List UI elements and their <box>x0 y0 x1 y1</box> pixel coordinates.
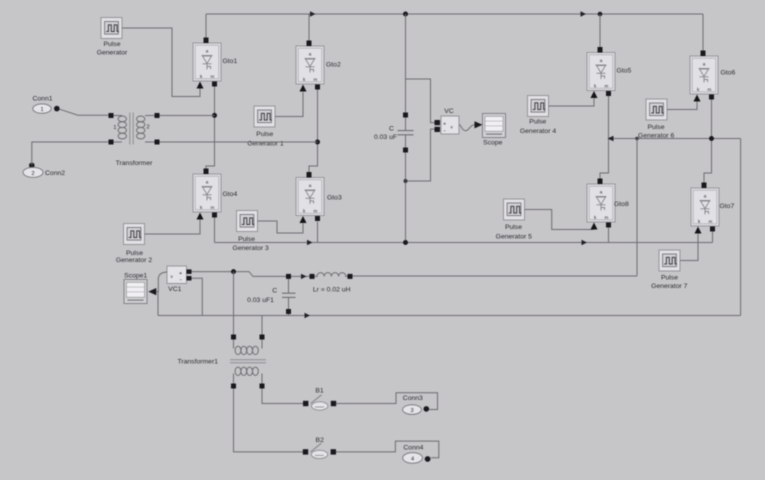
wire: right leg2 midpoint Gto6 cathode to Gto7 anode <box>704 100 712 183</box>
wire: Pulse Generator 5 to Gto8 gate <box>525 210 595 230</box>
wire: injection node down to Transformer1 primary left <box>233 272 235 335</box>
arrow into Scope1 input (flipped) <box>148 288 156 295</box>
svg-text:C: C <box>389 126 394 133</box>
junction dot: filter branch tap <box>635 137 639 141</box>
svg-text:Generator 1: Generator 1 <box>247 140 283 147</box>
pulse generator "Pulse Generator 1" <box>254 106 275 127</box>
voltage measurement VC <box>435 116 460 135</box>
wire: DC- rail up to Gto7 cathode <box>712 232 714 243</box>
svg-text:Generator 4: Generator 4 <box>520 128 556 135</box>
wire: right drop from y138 to bottom return line <box>740 139 742 316</box>
port Conn2 <box>23 163 65 178</box>
svg-text:VC: VC <box>444 108 454 115</box>
svg-text:-: - <box>180 278 182 284</box>
wire: VC output s-curve to Scope <box>459 125 475 131</box>
GTO Gto5 <box>587 47 615 98</box>
pulse generator "Pulse Generator" <box>101 18 122 39</box>
transformer Transformer <box>109 113 160 145</box>
GTO Gto4 <box>193 169 221 220</box>
arrow into Scope input <box>475 121 483 128</box>
wire: C1 top to inductor Lr <box>291 275 310 277</box>
wire: Gto8 cathode to DC- rail <box>608 228 610 243</box>
breaker B2 <box>303 443 336 458</box>
pulse generator "Pulse Generator 6" <box>646 99 667 120</box>
inductor Lr <box>310 273 353 279</box>
wire: transformer secondary bottom to left bridge leg2 <box>160 141 318 143</box>
pulse generator "Pulse Generator 4" <box>528 96 549 117</box>
GTO Gto1 <box>193 38 221 89</box>
wire: Pulse Generator 2 to Gto4 gate <box>145 220 201 234</box>
svg-text:Gto8: Gto8 <box>614 201 629 208</box>
wire: left leg2 midpoint Gto2 cathode to Gto3 anode <box>309 90 318 173</box>
breaker B1 <box>303 395 336 410</box>
junction arrow on return line right of C1 <box>305 313 311 318</box>
wire: Pulse Generator to Gto1 gate <box>122 28 200 97</box>
pulse generator "Pulse Generator 7" <box>659 250 680 271</box>
wire: Gto3 cathode to DC- rail <box>317 222 319 243</box>
junction arrow on DC- rail left <box>307 240 313 245</box>
junction dot: Transformer1 tap on VC1+ line <box>231 269 236 274</box>
pulse generator "Pulse Generator 5" <box>504 199 525 220</box>
svg-text:Conn4: Conn4 <box>403 445 423 452</box>
wire: capacitor C top tap to VC + input <box>406 79 435 123</box>
wire: Pulse Generator 3 to Gto3 gate <box>258 221 304 233</box>
voltage measurement VC1 (flipped) <box>167 266 192 284</box>
port Conn1 <box>32 96 59 114</box>
svg-text:2: 2 <box>31 171 34 177</box>
junction dot: transformer secondary bottom on leg2 <box>315 140 320 145</box>
GTO Gto7 <box>691 183 719 234</box>
junction dot on capacitor C bottom tap <box>404 179 408 183</box>
wire: VC1 output curve down to Scope1 <box>156 272 167 292</box>
junction arrow before Lr <box>301 274 307 279</box>
wire: Conn1 to transformer primary top <box>60 109 109 115</box>
svg-text:Scope: Scope <box>483 140 502 147</box>
wire: top DC+ rail <box>206 13 703 15</box>
svg-text:Generator: Generator <box>97 50 128 57</box>
port Conn3 <box>403 395 430 415</box>
junction dot: capacitor C tap on top rail <box>403 12 408 17</box>
scope Scope1 <box>124 280 147 304</box>
wire: top rail to capacitor C <box>405 14 407 113</box>
wire: transformer secondary top to left bridge leg1 <box>160 115 215 117</box>
wire: capacitor C bottom tap to VC - input <box>406 129 435 181</box>
svg-text:Conn3: Conn3 <box>403 395 423 402</box>
wire: Pulse Generator 1 to Gto2 gate <box>275 92 303 117</box>
wire: capacitor C bottom to DC- rail <box>405 153 407 243</box>
svg-text:Gto5: Gto5 <box>617 68 632 75</box>
svg-text:VC1: VC1 <box>168 286 181 293</box>
svg-text:C: C <box>272 288 277 295</box>
wire: DC- rail <box>215 242 713 244</box>
wire: Transformer1 secondary right down to breaker B1 <box>262 389 303 404</box>
svg-text:+: + <box>443 121 446 127</box>
svg-text:Transformer1: Transformer1 <box>177 358 218 365</box>
wire: rail down to Gto2 anode <box>308 14 310 41</box>
svg-text:Gto1: Gto1 <box>223 58 238 65</box>
junction dot where leg2 wire crosses y138 <box>709 136 714 141</box>
wire: B1 to Conn3 wrap-around <box>336 393 437 410</box>
wire: B2 to Conn4 wrap-around <box>336 441 439 458</box>
svg-text:Pulse: Pulse <box>661 274 678 281</box>
svg-text:0.03 uF: 0.03 uF <box>374 134 397 141</box>
wire: Lr to right bridge branch <box>353 275 638 277</box>
junction dot: capacitor C on DC- rail <box>403 240 408 245</box>
svg-text:Pulse: Pulse <box>647 124 664 131</box>
junction arrow at Gto5 cathode node <box>608 136 614 141</box>
svg-text:2: 2 <box>147 124 150 130</box>
scope Scope <box>483 114 506 138</box>
svg-text:Gto2: Gto2 <box>326 62 341 69</box>
transformer Transformer1 <box>230 335 266 389</box>
wire: rail corner down to Gto6 anode <box>702 14 704 51</box>
wire: Pulse Generator 6 to Gto6 gate <box>667 102 697 110</box>
junction arrow on top rail <box>310 11 316 16</box>
svg-text:Lr = 0.02 uH: Lr = 0.02 uH <box>313 286 351 293</box>
svg-text:Pulse: Pulse <box>256 131 273 138</box>
wire: C1 bottom stub to return line <box>288 314 290 316</box>
svg-text:B1: B1 <box>315 387 324 394</box>
wire: return line down to Transformer1 primary right <box>261 316 263 335</box>
svg-text:B2: B2 <box>316 437 325 444</box>
junction arrow on DC- rail right <box>582 240 588 245</box>
svg-text:Generator 3: Generator 3 <box>233 245 269 252</box>
wire: rail down to Gto5 anode <box>599 14 601 47</box>
svg-text:Conn1: Conn1 <box>32 96 52 103</box>
wire: VC1 + input to injection node <box>192 272 287 277</box>
svg-text:Gto6: Gto6 <box>721 70 736 77</box>
svg-text:Pulse: Pulse <box>505 224 522 231</box>
wire: Pulse Generator 4 to Gto5 gate <box>549 98 595 106</box>
svg-text:Pulse: Pulse <box>529 118 546 125</box>
svg-text:3: 3 <box>410 408 413 414</box>
wire: bottom return line <box>158 315 741 317</box>
svg-text:Transformer: Transformer <box>116 160 153 167</box>
svg-text:Gto3: Gto3 <box>327 195 342 202</box>
wire: right bridge output along y138 to right edge drop <box>609 138 741 140</box>
wire: right leg1 midpoint Gto5 cathode to Gto8 anode <box>600 96 609 179</box>
svg-text:1: 1 <box>113 125 116 131</box>
svg-text:+: + <box>179 271 182 277</box>
junction dot: Gto5 tap on top rail <box>598 12 603 17</box>
wire: left leg1 midpoint Gto1 cathode to Gto4 anode <box>206 87 215 169</box>
GTO Gto2 <box>296 41 324 92</box>
GTO Gto3 <box>296 172 324 223</box>
svg-text:Conn2: Conn2 <box>45 170 65 177</box>
svg-text:Pulse: Pulse <box>103 41 120 48</box>
wire: Transformer1 secondary left down to breaker B2 <box>234 389 304 452</box>
svg-text:1: 1 <box>40 107 43 113</box>
wire: Pulse Generator 7 to Gto7 gate <box>680 234 698 261</box>
svg-text:Gto7: Gto7 <box>720 203 735 210</box>
wire: Gto4 cathode to DC- rail <box>214 218 216 243</box>
wire: Conn2 to transformer primary bottom <box>32 142 109 165</box>
svg-text:Generator 2: Generator 2 <box>116 257 152 264</box>
svg-text:4: 4 <box>411 457 414 463</box>
svg-text:Scope1: Scope1 <box>124 272 147 279</box>
GTO Gto8 <box>587 179 615 230</box>
svg-text:-: - <box>444 129 446 135</box>
svg-text:Generator 5: Generator 5 <box>496 234 532 241</box>
wire: VC1 - input down to bottom return line <box>192 278 203 315</box>
junction arrow on top rail right <box>581 11 587 16</box>
wire: drop from scope node to bottom return line <box>157 292 159 316</box>
GTO Gto6 <box>690 51 718 102</box>
svg-text:Gto4: Gto4 <box>223 191 238 198</box>
port Conn4 <box>403 445 431 464</box>
svg-text:Generator 7: Generator 7 <box>651 283 687 290</box>
svg-text:0.03 uF1: 0.03 uF1 <box>247 297 274 304</box>
junction dot: transformer secondary top on leg1 <box>212 113 217 118</box>
pulse generator "Pulse Generator 3" <box>237 211 258 232</box>
wire: rail down to Gto1 anode <box>205 14 207 38</box>
capacitor C <box>398 113 414 153</box>
pulse generator "Pulse Generator 2" <box>124 224 145 245</box>
capacitor C1 (0.03 uF1) <box>282 274 296 314</box>
wire: y138 node down to filter line <box>636 139 638 276</box>
